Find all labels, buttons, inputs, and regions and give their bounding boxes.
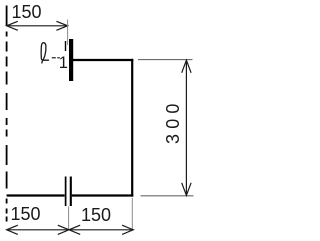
svg-text:150: 150 — [81, 205, 111, 225]
svg-text:150: 150 — [11, 2, 41, 22]
centerline (dash-dot symmetry axis) — [6, 6, 8, 222]
wire bottom horizontal (right of capacitor) — [72, 194, 133, 196]
label script ell — [41, 43, 48, 63]
capacitor C plates — [66, 177, 71, 207]
wire right vertical — [131, 59, 133, 197]
extension line (300 dimension, top) — [138, 59, 193, 61]
label leader dashes — [52, 57, 60, 59]
wire top horizontal — [73, 59, 133, 61]
extension line (top dimension, right) — [67, 20, 69, 46]
svg-text:150: 150 — [10, 204, 40, 224]
dimension 150 (top): dimension line with arrows — [7, 21, 68, 30]
wire bottom horizontal (left of capacitor) — [7, 194, 65, 196]
extension line (capacitor center, down) — [68, 207, 70, 230]
dimension 300 (right): dimension line with arrows — [182, 60, 191, 195]
thin gap plate (feed gap) — [65, 41, 67, 51]
svg-text:1: 1 — [59, 54, 68, 72]
dimension 150 (bottom left): dimension line with arrows — [7, 225, 69, 234]
end plate (thick bar) — [69, 39, 73, 81]
extension line (bottom right corner, down) — [131, 198, 133, 229]
dimension 150 (bottom right): dimension line with arrows — [69, 225, 133, 234]
svg-text:300: 300 — [163, 98, 183, 144]
extension line (300 dimension, bottom) — [141, 195, 194, 197]
